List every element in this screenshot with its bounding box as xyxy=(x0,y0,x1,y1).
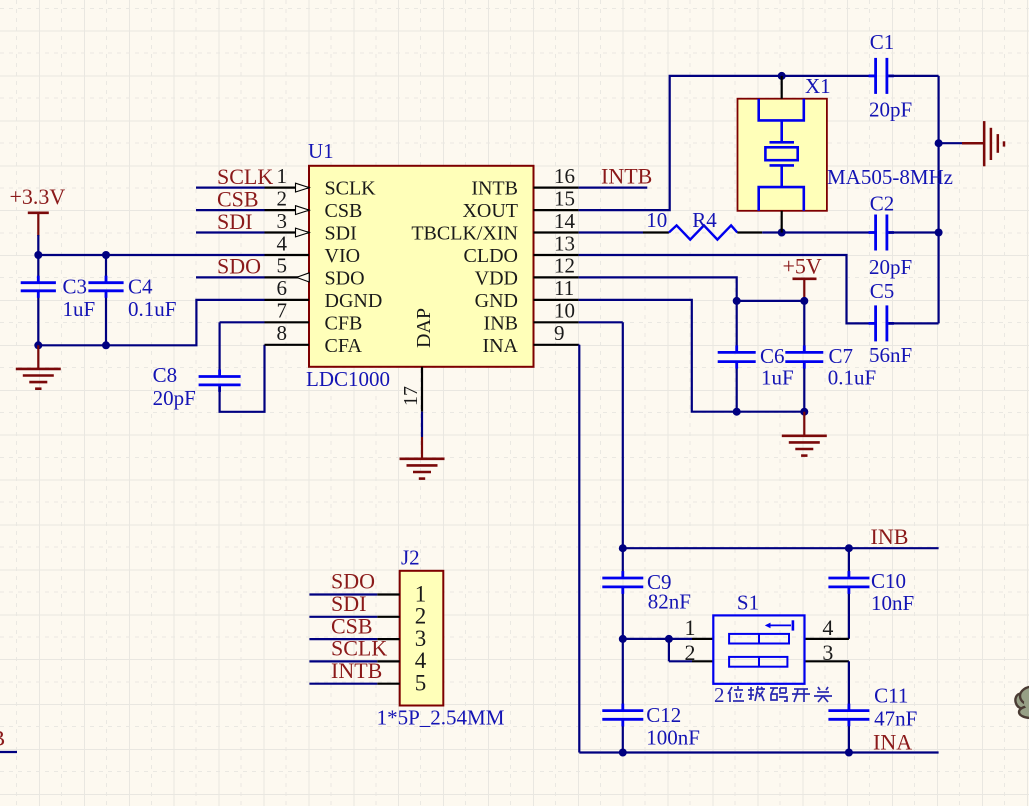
svg-text:INA: INA xyxy=(482,335,518,357)
ground GND (DAP) xyxy=(400,437,445,479)
crystal X1 MA505-8MHz xyxy=(738,74,954,233)
svg-text:1: 1 xyxy=(685,615,696,640)
junction C6 top xyxy=(733,297,741,305)
net label INTB (J2) xyxy=(331,658,382,683)
svg-text:4: 4 xyxy=(415,648,427,673)
U1 pin 4 VIO xyxy=(265,231,361,267)
junction INA/C11 xyxy=(845,749,853,757)
wire SCLK net xyxy=(196,187,265,189)
J2 pin 2 xyxy=(377,604,426,629)
junction crystal bottom xyxy=(778,229,786,237)
svg-text:SCLK: SCLK xyxy=(217,164,273,189)
svg-text:VIO: VIO xyxy=(325,245,361,267)
svg-text:INTB: INTB xyxy=(331,658,382,683)
svg-text:1uF: 1uF xyxy=(63,297,96,321)
wire +3.3V stem xyxy=(37,235,39,255)
svg-text:LDC1000: LDC1000 xyxy=(306,367,390,391)
svg-text:15: 15 xyxy=(554,186,575,210)
switch S1 pin 1 xyxy=(685,615,714,640)
power +5V xyxy=(783,253,822,301)
wire right rail (XIN net) xyxy=(937,76,939,324)
U1 pin 17 DAP xyxy=(400,308,435,412)
svg-text:CLDO: CLDO xyxy=(464,245,518,267)
U1 pin 2 CSB xyxy=(265,186,363,222)
junction INB/C9 xyxy=(619,544,627,552)
svg-text:XOUT: XOUT xyxy=(462,200,518,222)
junction +3.3V/C4 xyxy=(102,251,110,259)
svg-text:X1: X1 xyxy=(805,74,831,98)
svg-text:10nF: 10nF xyxy=(871,591,914,615)
wire R4 to C2 xyxy=(762,231,874,233)
svg-text:100nF: 100nF xyxy=(646,726,700,750)
svg-text:56nF: 56nF xyxy=(869,343,912,367)
wire J2 SDI net xyxy=(309,616,377,618)
wire J2 CSB net xyxy=(309,638,377,640)
svg-text:C2: C2 xyxy=(870,192,895,216)
net label SDI xyxy=(217,209,252,234)
ground GND (right, rotated) xyxy=(962,121,1004,166)
svg-text:J2: J2 xyxy=(401,546,420,570)
switch S1 body (2-bit DIP) xyxy=(713,590,804,683)
svg-text:SDO: SDO xyxy=(325,267,365,289)
J2 pin 1 xyxy=(377,581,426,606)
svg-text:5: 5 xyxy=(415,671,427,696)
svg-text:C4: C4 xyxy=(128,275,153,299)
switch S1 pin 4 xyxy=(805,615,849,640)
wire DGND pin6 to ground rail xyxy=(38,300,264,345)
wire CLDO to C5 xyxy=(579,255,875,323)
wire XOUT to crystal top xyxy=(579,76,875,210)
svg-text:S1: S1 xyxy=(737,590,759,614)
svg-text:6: 6 xyxy=(277,276,288,300)
capacitor C7 xyxy=(785,301,876,412)
capacitor C1 xyxy=(869,30,913,122)
svg-text:SDI: SDI xyxy=(331,591,366,616)
svg-text:MA505-8MHz: MA505-8MHz xyxy=(827,165,953,189)
svg-text:CSB: CSB xyxy=(325,200,363,222)
net label INTB xyxy=(601,163,652,188)
wire INB rail xyxy=(623,547,939,549)
net label SDO xyxy=(217,254,261,279)
switch S1 pin 3 xyxy=(805,640,849,665)
svg-text:2: 2 xyxy=(685,640,696,665)
resistor R4 xyxy=(643,208,762,240)
svg-text:8: 8 xyxy=(277,321,288,345)
svg-text:INTB: INTB xyxy=(601,163,652,188)
junction C6 bottom xyxy=(733,408,741,416)
junction S1 pins 1/2 xyxy=(619,635,673,643)
J2 pin 4 xyxy=(377,648,427,673)
svg-text:C1: C1 xyxy=(870,30,895,54)
U1 pin 15 XOUT xyxy=(462,186,578,222)
wire CSB net xyxy=(196,209,265,211)
wire J2 SDO net xyxy=(309,593,377,595)
svg-text:SDI: SDI xyxy=(217,209,252,234)
wire VDD to +5V rail xyxy=(579,277,737,301)
capacitor C11 xyxy=(828,661,917,752)
net label SDO (J2) xyxy=(331,569,375,594)
svg-text:16: 16 xyxy=(554,164,575,188)
svg-text:SCLK: SCLK xyxy=(325,178,377,200)
junction right rail / ground tap xyxy=(935,139,943,147)
capacitor C9 xyxy=(602,548,691,639)
svg-text:7: 7 xyxy=(277,299,288,323)
junction +3.3V/C3 xyxy=(34,251,42,259)
wire ground tap stub xyxy=(939,142,962,144)
svg-text:C10: C10 xyxy=(871,569,906,593)
ground GND (C6/C7) xyxy=(782,412,827,456)
net label CSB (J2) xyxy=(331,613,373,638)
svg-text:C11: C11 xyxy=(874,684,908,708)
svg-text:2: 2 xyxy=(714,683,725,707)
svg-text:10: 10 xyxy=(646,208,667,232)
svg-text:DAP: DAP xyxy=(413,308,435,348)
U1 pin 16 INTB xyxy=(471,164,578,200)
capacitor C5 xyxy=(869,279,913,367)
U1 pin 11 GND xyxy=(475,276,579,312)
wire C1 to right rail xyxy=(889,75,939,77)
wire GND pin11 to ground rail xyxy=(579,300,805,412)
power +3.3V xyxy=(10,184,66,236)
U1 pin 12 VDD xyxy=(475,254,579,290)
wire S1 pin2 branch xyxy=(669,639,692,661)
svg-text:C12: C12 xyxy=(646,703,681,727)
svg-text:SDO: SDO xyxy=(331,569,375,594)
svg-text:10: 10 xyxy=(554,299,575,323)
junction INB/C10 xyxy=(845,544,853,552)
op-amp U1 LDC1000 body xyxy=(306,139,534,391)
svg-text:12: 12 xyxy=(554,254,575,278)
U1 pin 8 CFA xyxy=(265,321,363,357)
svg-text:DGND: DGND xyxy=(325,290,383,312)
net label SDI (J2) xyxy=(331,591,366,616)
svg-text:SCLK: SCLK xyxy=(331,636,387,661)
svg-text:2: 2 xyxy=(277,186,288,210)
net label fragment B (clipped) xyxy=(0,726,5,751)
capacitor C4 xyxy=(88,255,176,345)
svg-text:1: 1 xyxy=(415,581,427,606)
J2 pin 5 xyxy=(377,671,426,696)
wire +3.3V rail to pin 4 xyxy=(38,254,264,256)
net label INB xyxy=(871,524,909,549)
wire C2 to right rail xyxy=(889,231,939,233)
net label SCLK xyxy=(217,164,273,189)
svg-text:2: 2 xyxy=(415,604,427,629)
U1 pin 3 SDI xyxy=(265,209,357,245)
svg-text:SDO: SDO xyxy=(217,254,261,279)
capacitor C3 xyxy=(21,255,95,345)
wire J2 INTB net xyxy=(309,683,377,685)
switch S1 pin 2 xyxy=(685,640,714,665)
svg-text:C3: C3 xyxy=(63,275,88,299)
decoration: cursor blob xyxy=(1014,687,1029,719)
capacitor C10 xyxy=(828,548,914,639)
svg-text:GND: GND xyxy=(475,290,518,312)
wire stub bottom-left xyxy=(0,751,17,753)
svg-text:R4: R4 xyxy=(692,208,717,232)
wire C5 to right rail xyxy=(889,322,939,324)
svg-text:CFA: CFA xyxy=(325,335,363,357)
svg-text:0.1uF: 0.1uF xyxy=(828,366,876,390)
svg-text:B: B xyxy=(0,726,5,751)
junction C7 top xyxy=(800,297,808,305)
svg-text:INA: INA xyxy=(873,730,912,755)
junction DGND/C4 xyxy=(102,341,110,349)
U1 pin 7 CFB xyxy=(265,299,363,335)
wire C9 to S1 pin1 xyxy=(623,638,692,640)
svg-text:0.1uF: 0.1uF xyxy=(128,297,176,321)
svg-text:SDI: SDI xyxy=(325,223,357,245)
svg-text:47nF: 47nF xyxy=(874,706,917,730)
wire J2 SCLK net xyxy=(309,660,377,662)
U1 pin 1 SCLK xyxy=(265,164,377,200)
junction C7 bottom xyxy=(800,408,808,416)
svg-text:VDD: VDD xyxy=(475,267,518,289)
svg-text:INTB: INTB xyxy=(471,178,518,200)
junction INA/C12 xyxy=(619,749,627,757)
wire SDO net xyxy=(196,276,265,278)
svg-text:+5V: +5V xyxy=(783,253,822,278)
svg-text:1uF: 1uF xyxy=(761,365,794,389)
wire SDI net xyxy=(196,231,265,233)
J2 pin 3 xyxy=(377,626,426,651)
wire INTB net xyxy=(579,187,648,189)
U1 pin 13 CLDO xyxy=(464,231,579,267)
svg-text:20pF: 20pF xyxy=(869,255,912,279)
svg-text:C7: C7 xyxy=(829,344,854,368)
svg-text:11: 11 xyxy=(554,276,574,300)
svg-text:U1: U1 xyxy=(308,139,334,163)
svg-text:INB: INB xyxy=(484,312,518,334)
svg-text:TBCLK/XIN: TBCLK/XIN xyxy=(411,223,518,245)
svg-text:CSB: CSB xyxy=(217,186,259,211)
U1 pin 5 SDO xyxy=(265,254,365,290)
capacitor C8 xyxy=(153,363,241,410)
wire CFA pin8 loop xyxy=(220,345,265,412)
capacitor C2 xyxy=(869,192,913,279)
svg-text:3: 3 xyxy=(277,209,288,233)
svg-text:C8: C8 xyxy=(153,363,178,387)
wire TBCLK to R4 xyxy=(579,231,643,233)
net label SCLK (J2) xyxy=(331,636,387,661)
svg-text:14: 14 xyxy=(554,209,576,233)
wire INA pin9 down xyxy=(578,345,581,753)
svg-text:17: 17 xyxy=(400,386,422,406)
U1 pin 10 INB xyxy=(484,299,579,335)
S1 caption 2位拨码开关 xyxy=(714,683,832,707)
svg-text:C6: C6 xyxy=(760,344,785,368)
svg-text:INB: INB xyxy=(871,524,909,549)
capacitor C6 xyxy=(718,301,794,412)
svg-text:20pF: 20pF xyxy=(869,98,912,122)
net label INA xyxy=(873,730,912,755)
svg-text:CFB: CFB xyxy=(325,312,363,334)
svg-text:4: 4 xyxy=(822,615,833,640)
U1 pin 14 TBCLK/XIN xyxy=(411,209,578,245)
U1 pin 9 INA xyxy=(482,321,578,357)
wire INA rail xyxy=(579,751,938,753)
svg-text:C5: C5 xyxy=(870,279,895,303)
svg-text:20pF: 20pF xyxy=(153,386,196,410)
junction DGND/C3 xyxy=(34,341,42,349)
svg-text:3: 3 xyxy=(415,626,427,651)
svg-text:3: 3 xyxy=(822,640,833,665)
ground GND (C3/C4) xyxy=(16,345,61,388)
junction crystal top xyxy=(778,72,786,80)
net label CSB xyxy=(217,186,259,211)
svg-text:1: 1 xyxy=(277,164,288,188)
wire DAP to ground xyxy=(421,412,423,437)
wire CFB pin7 xyxy=(220,322,265,374)
wire +5V rail xyxy=(737,300,805,302)
svg-text:82nF: 82nF xyxy=(648,590,691,614)
svg-text:1*5P_2.54MM: 1*5P_2.54MM xyxy=(377,706,505,730)
connector J2 body xyxy=(377,546,505,730)
svg-text:CSB: CSB xyxy=(331,613,373,638)
wire INB pin10 down xyxy=(579,322,623,548)
svg-text:5: 5 xyxy=(277,254,288,278)
U1 pin 6 DGND xyxy=(265,276,383,312)
svg-text:+3.3V: +3.3V xyxy=(10,184,66,209)
junction C2/right rail xyxy=(935,229,943,237)
capacitor C12 xyxy=(602,639,700,753)
svg-text:9: 9 xyxy=(554,321,565,345)
svg-text:13: 13 xyxy=(554,231,575,255)
svg-text:4: 4 xyxy=(277,231,288,255)
